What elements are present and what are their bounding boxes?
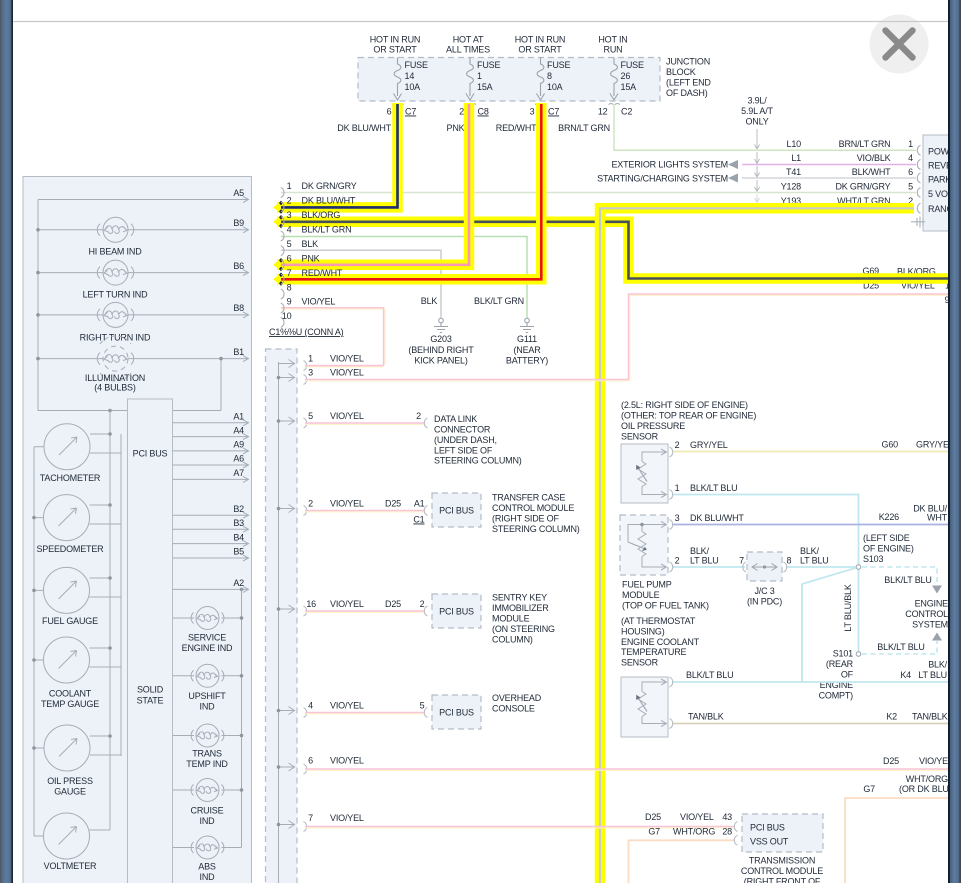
- svg-text:DK BLU/WHT: DK BLU/WHT: [302, 196, 356, 206]
- svg-text:(OR DK BLU): (OR DK BLU): [899, 784, 952, 794]
- svg-text:L10: L10: [787, 139, 802, 149]
- svg-text:HOT IN: HOT IN: [598, 35, 627, 45]
- svg-text:3: 3: [530, 107, 535, 117]
- svg-text:K4: K4: [900, 670, 911, 680]
- illumination bulbs (dashed): [97, 336, 133, 381]
- svg-text:STARTING/CHARGING SYSTEM: STARTING/CHARGING SYSTEM: [597, 174, 728, 184]
- svg-text:(UNDER DASH,: (UNDER DASH,: [434, 435, 497, 445]
- svg-text:2: 2: [675, 440, 680, 450]
- svg-text:6: 6: [308, 756, 313, 766]
- svg-text:SYSTEM: SYSTEM: [912, 619, 948, 629]
- svg-text:PNK: PNK: [302, 253, 320, 263]
- svg-text:UPSHIFT: UPSHIFT: [188, 691, 226, 701]
- svg-text:A1: A1: [414, 499, 425, 509]
- svg-text:BLK/LT GRN: BLK/LT GRN: [302, 225, 352, 235]
- fuse 14: [392, 58, 404, 105]
- svg-text:A5: A5: [233, 188, 244, 198]
- svg-text:BLK/LT BLU: BLK/LT BLU: [877, 642, 924, 652]
- svg-text:6: 6: [387, 107, 392, 117]
- svg-text:3.9L/: 3.9L/: [747, 96, 767, 106]
- svg-text:L1: L1: [791, 153, 801, 163]
- svg-text:HOT IN RUN: HOT IN RUN: [515, 35, 566, 45]
- svg-text:CRUISE: CRUISE: [191, 805, 224, 815]
- svg-text:(IN PDC): (IN PDC): [747, 597, 782, 607]
- svg-text:BRN/LT GRN: BRN/LT GRN: [558, 123, 610, 133]
- svg-text:TAN/BLK: TAN/BLK: [912, 712, 948, 722]
- svg-text:15A: 15A: [477, 82, 493, 92]
- svg-text:CONTROL: CONTROL: [905, 609, 948, 619]
- svg-text:8: 8: [787, 556, 792, 566]
- svg-text:43: 43: [722, 812, 732, 822]
- solid state / pci bus controller box: [128, 399, 173, 883]
- svg-text:J/C 3: J/C 3: [754, 586, 774, 596]
- svg-text:(LEFT SIDE: (LEFT SIDE: [863, 533, 910, 543]
- junction dots on left bus: [36, 228, 40, 232]
- svg-text:ENGINE: ENGINE: [915, 599, 949, 609]
- connector bus dots: [277, 376, 281, 827]
- svg-text:GAUGE: GAUGE: [54, 786, 86, 796]
- svg-text:G111: G111: [517, 334, 537, 344]
- svg-text:7: 7: [287, 268, 292, 278]
- svg-text:OR START: OR START: [518, 45, 562, 55]
- svg-text:COOLANT: COOLANT: [49, 688, 92, 698]
- svg-text:2: 2: [675, 556, 680, 566]
- svg-text:8: 8: [287, 283, 292, 293]
- svg-text:COMPT): COMPT): [819, 691, 854, 701]
- svg-text:4: 4: [287, 225, 292, 235]
- wire WHT/ORG right G7: [845, 798, 949, 883]
- svg-text:SENTRY KEY: SENTRY KEY: [492, 593, 547, 603]
- svg-text:(BEHIND RIGHT: (BEHIND RIGHT: [408, 345, 474, 355]
- wire TAN/BLK ect pin2 to K2: [672, 723, 949, 725]
- svg-text:VOLTMETER: VOLTMETER: [44, 861, 97, 871]
- svg-text:(TOP OF FUEL TANK): (TOP OF FUEL TANK): [622, 600, 709, 610]
- svg-text:VIO/YEL: VIO/YEL: [330, 354, 364, 364]
- cruise ind bulb: [173, 779, 242, 802]
- svg-text:PCI BUS: PCI BUS: [133, 449, 168, 459]
- grip handle icon: [911, 217, 925, 228]
- svg-text:6: 6: [908, 167, 913, 177]
- svg-text:OIL PRESS: OIL PRESS: [47, 776, 93, 786]
- connector bus vertical: [278, 362, 280, 883]
- svg-text:A7: A7: [233, 468, 244, 478]
- svg-text:2: 2: [416, 411, 421, 421]
- svg-text:LT BLU: LT BLU: [918, 670, 947, 680]
- svg-text:(RIGHT FRONT OF: (RIGHT FRONT OF: [744, 877, 821, 883]
- svg-text:OF DASH): OF DASH): [666, 88, 708, 98]
- highlight end diamonds: [273, 204, 278, 283]
- wire DK BLU/WHT fuel pump pin3 to K226: [672, 524, 949, 526]
- svg-text:B6: B6: [233, 261, 244, 271]
- svg-text:BLOCK: BLOCK: [666, 67, 696, 77]
- svg-text:WHT: WHT: [927, 513, 948, 523]
- svg-text:STATE: STATE: [137, 696, 164, 706]
- tachometer: [44, 424, 90, 470]
- svg-text:BLK/: BLK/: [690, 546, 709, 556]
- highlighted wire RED/WHT row7 to fuse8: [277, 103, 541, 279]
- svg-text:STEERING COLUMN): STEERING COLUMN): [492, 524, 580, 534]
- svg-text:A1: A1: [233, 412, 244, 422]
- oil press gauge: [44, 725, 90, 771]
- wire A2 row: [173, 588, 249, 590]
- svg-text:T41: T41: [786, 167, 801, 177]
- svg-text:ONLY: ONLY: [745, 117, 768, 127]
- svg-text:A4: A4: [233, 425, 244, 435]
- wire row4 BLK/LT GRN to G111: [281, 237, 527, 319]
- svg-text:CONTROL MODULE: CONTROL MODULE: [492, 503, 574, 513]
- svg-text:IMMOBILIZER: IMMOBILIZER: [492, 603, 549, 613]
- svg-text:14: 14: [405, 71, 415, 81]
- svg-text:BLK/ORG: BLK/ORG: [302, 210, 341, 220]
- svg-text:4: 4: [308, 701, 313, 711]
- svg-text:WHT/ORG: WHT/ORG: [906, 774, 948, 784]
- svg-text:DATA LINK: DATA LINK: [434, 414, 477, 424]
- left turn ind bulb: [97, 260, 133, 285]
- arrow line for A/T note: [755, 129, 760, 203]
- svg-text:4: 4: [908, 153, 913, 163]
- svg-text:VIO/YEL: VIO/YEL: [330, 701, 364, 711]
- svg-text:RUN: RUN: [604, 45, 623, 55]
- highlighted wire PNK row6 to fuse1: [277, 103, 469, 265]
- indicator bulb bus: [241, 589, 243, 847]
- wire BLK/LT BLU ect pin1 to K4 and S103: [672, 681, 949, 683]
- svg-text:DK GRN/GRY: DK GRN/GRY: [835, 181, 890, 191]
- wire BRN/LT GRN fuse26 to L10 row: [614, 104, 916, 150]
- tcm pci bus / vss out box: [742, 814, 823, 852]
- pci bus output rows B2-B5: [173, 515, 249, 558]
- svg-text:OF ENGINE): OF ENGINE): [863, 543, 914, 553]
- svg-text:BLK/LT BLU: BLK/LT BLU: [686, 670, 733, 680]
- svg-text:1: 1: [308, 354, 313, 364]
- svg-text:LT BLU: LT BLU: [800, 556, 829, 566]
- svg-text:LT BLU/BLK: LT BLU/BLK: [843, 584, 853, 632]
- svg-text:C7: C7: [548, 107, 559, 117]
- svg-text:Y128: Y128: [781, 181, 801, 191]
- svg-text:SENSOR: SENSOR: [621, 658, 659, 668]
- svg-text:7: 7: [308, 813, 313, 823]
- hi beam ind bulb: [97, 217, 133, 242]
- wire B1 drop to bus: [220, 359, 222, 411]
- svg-text:1: 1: [908, 139, 913, 149]
- svg-text:DK GRN/GRY: DK GRN/GRY: [302, 181, 357, 191]
- wire conn row4 VIO/YEL to overhead console: [305, 713, 424, 715]
- speedometer: [44, 495, 90, 541]
- svg-text:WHT/ORG: WHT/ORG: [673, 827, 715, 837]
- svg-text:2: 2: [308, 499, 313, 509]
- svg-text:RIGHT TURN IND: RIGHT TURN IND: [80, 333, 151, 343]
- svg-text:VSS OUT: VSS OUT: [750, 837, 789, 847]
- svg-text:CONTROL MODULE: CONTROL MODULE: [741, 866, 823, 876]
- svg-text:A6: A6: [233, 454, 244, 464]
- svg-text:5: 5: [908, 181, 913, 191]
- svg-text:2: 2: [459, 107, 464, 117]
- svg-text:(LEFT END: (LEFT END: [666, 78, 711, 88]
- wire B6 row: [38, 272, 248, 274]
- wire WHT/ORG vss out: [629, 840, 735, 883]
- module connector arcs: [917, 145, 920, 213]
- svg-text:B5: B5: [233, 547, 244, 557]
- voltmeter stubs: [34, 830, 110, 836]
- svg-text:OR START: OR START: [373, 45, 417, 55]
- wire conn row7 VIO/YEL to TCM: [305, 827, 734, 829]
- wire BLK/LT BLU fuel pump pin2 through J/C3: [672, 566, 857, 568]
- splice S103: [858, 569, 860, 652]
- svg-text:FUSE: FUSE: [405, 60, 428, 70]
- svg-text:TAN/BLK: TAN/BLK: [688, 712, 724, 722]
- svg-text:KICK PANEL): KICK PANEL): [414, 355, 468, 365]
- svg-text:A2: A2: [233, 578, 244, 588]
- svg-text:OVERHEAD: OVERHEAD: [492, 693, 542, 703]
- speedometer stubs: [34, 505, 121, 524]
- wire conn row5 VIO/YEL to DLC: [305, 423, 424, 425]
- wire row5 BLK to G203: [281, 250, 441, 318]
- svg-text:B9: B9: [233, 218, 244, 228]
- svg-text:K2: K2: [886, 712, 897, 722]
- fuse 26: [609, 58, 621, 105]
- svg-text:(2.5L: RIGHT SIDE OF ENGINE): (2.5L: RIGHT SIDE OF ENGINE): [621, 400, 748, 410]
- svg-text:PCI BUS: PCI BUS: [750, 823, 785, 833]
- svg-text:G60: G60: [882, 440, 899, 450]
- svg-text:IND: IND: [200, 872, 216, 882]
- coolant temp gauge: [44, 637, 90, 683]
- wire row9 VIO/YEL loop to conn row1: [281, 309, 385, 364]
- svg-text:GRY/YEL: GRY/YEL: [690, 440, 728, 450]
- dashed wire S101 to engine control system: [862, 641, 937, 654]
- svg-text:ABS: ABS: [198, 861, 216, 871]
- gauge bus vertical lines: [110, 411, 121, 831]
- svg-text:BRN/LT GRN: BRN/LT GRN: [839, 139, 891, 149]
- svg-text:CONSOLE: CONSOLE: [492, 704, 535, 714]
- svg-text:G7: G7: [863, 784, 875, 794]
- wire L1 VIO/BLK: [742, 164, 916, 166]
- svg-text:FUSE: FUSE: [621, 60, 644, 70]
- fuel pump module box: [620, 515, 668, 575]
- svg-text:(AT THERMOSTAT: (AT THERMOSTAT: [621, 616, 696, 626]
- svg-text:9: 9: [287, 297, 292, 307]
- svg-text:5: 5: [308, 411, 313, 421]
- svg-text:CONNECTOR: CONNECTOR: [434, 425, 491, 435]
- svg-text:BLK: BLK: [421, 296, 438, 306]
- cluster internal bus box: [38, 200, 221, 411]
- svg-text:BLK/: BLK/: [800, 546, 819, 556]
- connector row arrows: [279, 360, 295, 829]
- svg-text:SERVICE: SERVICE: [188, 632, 226, 642]
- svg-text:BLK/LT BLU: BLK/LT BLU: [690, 483, 737, 493]
- svg-text:STEERING COLUMN): STEERING COLUMN): [434, 456, 522, 466]
- svg-text:C2: C2: [621, 107, 632, 117]
- svg-text:VIO/YEL: VIO/YEL: [919, 756, 953, 766]
- svg-text:JUNCTION: JUNCTION: [666, 57, 710, 67]
- svg-text:BATTERY): BATTERY): [506, 355, 548, 365]
- svg-text:BLK/: BLK/: [928, 660, 947, 670]
- svg-text:8: 8: [547, 71, 552, 81]
- wire T41 BLK/WHT: [742, 177, 916, 179]
- service engine ind bulb: [173, 607, 242, 630]
- svg-text:VIO/BLK: VIO/BLK: [857, 153, 891, 163]
- svg-text:SENSOR: SENSOR: [621, 432, 659, 442]
- svg-text:OIL PRESSURE: OIL PRESSURE: [621, 421, 685, 431]
- svg-text:S103: S103: [863, 554, 883, 564]
- svg-text:(ON STEERING: (ON STEERING: [492, 624, 555, 634]
- svg-text:HOUSING): HOUSING): [621, 626, 665, 636]
- svg-text:B3: B3: [233, 518, 244, 528]
- wire B8 row: [38, 314, 248, 316]
- svg-text:(REAR: (REAR: [826, 659, 854, 669]
- wire BLK/LT BLU ops pin1 to S103: [672, 495, 859, 566]
- svg-text:C8: C8: [478, 107, 489, 117]
- svg-text:1: 1: [287, 181, 292, 191]
- svg-text:PNK: PNK: [447, 123, 465, 133]
- svg-text:S101: S101: [833, 649, 853, 659]
- voltmeter: [44, 813, 90, 859]
- svg-text:HOT IN RUN: HOT IN RUN: [370, 35, 421, 45]
- svg-text:D25: D25: [385, 499, 401, 509]
- svg-text:12: 12: [598, 107, 608, 117]
- svg-text:PCI BUS: PCI BUS: [439, 506, 474, 516]
- svg-text:DK BLU/WHT: DK BLU/WHT: [337, 123, 391, 133]
- junction block fuse box: [358, 58, 660, 102]
- svg-text:K226: K226: [879, 512, 899, 522]
- svg-text:FUEL PUMP: FUEL PUMP: [622, 580, 672, 590]
- svg-text:VIO/YEL: VIO/YEL: [330, 756, 364, 766]
- svg-text:DK BLU/WHT: DK BLU/WHT: [690, 513, 744, 523]
- svg-text:BLK/WHT: BLK/WHT: [852, 167, 891, 177]
- svg-text:TEMPERATURE: TEMPERATURE: [621, 647, 687, 657]
- svg-text:3: 3: [675, 513, 680, 523]
- svg-text:FUEL GAUGE: FUEL GAUGE: [42, 616, 98, 626]
- wire GRY/YEL to G60: [672, 451, 949, 453]
- svg-text:VIO/YEL: VIO/YEL: [680, 812, 714, 822]
- arrow exterior lights: [728, 160, 738, 169]
- svg-text:LEFT SIDE OF: LEFT SIDE OF: [434, 445, 493, 455]
- coolant stubs: [34, 648, 121, 667]
- svg-text:HI BEAM IND: HI BEAM IND: [88, 247, 142, 257]
- connector arcs: [304, 361, 307, 832]
- cluster harness connector (dashed): [266, 349, 298, 883]
- top divider line: [13, 21, 948, 23]
- highlighted wire WHT/LT GRN vertical: [600, 208, 914, 883]
- svg-text:FUSE: FUSE: [547, 60, 570, 70]
- svg-text:VIO/YEL: VIO/YEL: [330, 813, 364, 823]
- svg-text:(OTHER: TOP REAR OF ENGINE): (OTHER: TOP REAR OF ENGINE): [621, 410, 756, 420]
- svg-text:RED/WHT: RED/WHT: [302, 268, 343, 278]
- svg-text:15A: 15A: [621, 82, 637, 92]
- arrow starting/charging: [728, 174, 738, 183]
- oil press stubs: [34, 736, 121, 755]
- wire B9 row: [38, 229, 248, 231]
- svg-text:3: 3: [287, 210, 292, 220]
- svg-text:3: 3: [308, 368, 313, 378]
- svg-text:10: 10: [282, 311, 292, 321]
- wire conn row6 VIO/YEL to right: [305, 769, 949, 771]
- transfer case pci bus box: [432, 493, 481, 527]
- pci bus output rows A1-A7: [173, 423, 249, 480]
- fuse 8: [535, 58, 547, 105]
- svg-text:D25: D25: [883, 756, 899, 766]
- svg-text:G203: G203: [430, 334, 451, 344]
- svg-text:5: 5: [420, 701, 425, 711]
- svg-text:PCI BUS: PCI BUS: [439, 708, 474, 718]
- svg-text:MODULE: MODULE: [622, 590, 660, 600]
- arrows row ends: [243, 197, 249, 362]
- svg-text:IND: IND: [200, 701, 216, 711]
- wire row1 DK GRN/GRY to Y128: [281, 192, 916, 194]
- svg-text:10A: 10A: [547, 82, 563, 92]
- svg-text:D25: D25: [645, 812, 661, 822]
- svg-text:TEMP IND: TEMP IND: [186, 759, 228, 769]
- svg-text:IND: IND: [200, 816, 216, 826]
- svg-text:B8: B8: [233, 303, 244, 313]
- wire conn row3 VIO/YEL to D25: [305, 295, 949, 381]
- svg-text:5.9L A/T: 5.9L A/T: [741, 106, 773, 116]
- svg-text:5: 5: [287, 239, 292, 249]
- svg-text:SOLID: SOLID: [137, 685, 164, 695]
- wire conn row16 VIO/YEL to SKIM: [305, 611, 424, 613]
- svg-text:A9: A9: [233, 440, 244, 450]
- svg-text:26: 26: [621, 71, 631, 81]
- dashed wire S103 to engine control system: [862, 567, 937, 585]
- svg-text:B2: B2: [233, 504, 244, 514]
- svg-text:16: 16: [306, 599, 316, 609]
- highlighted wire DK BLU/WHT row2 to fuse14: [277, 103, 398, 207]
- svg-text:BLK/LT GRN: BLK/LT GRN: [474, 296, 524, 306]
- wire conn row2 VIO/YEL to TCCM: [305, 511, 424, 513]
- svg-text:VIO/YEL: VIO/YEL: [330, 368, 364, 378]
- svg-text:ILLUMINATION: ILLUMINATION: [85, 373, 145, 383]
- svg-text:B4: B4: [233, 532, 244, 542]
- splice S101: [856, 652, 861, 657]
- powertrain module box: [923, 135, 956, 231]
- svg-text:28: 28: [722, 827, 732, 837]
- svg-text:ENGINE IND: ENGINE IND: [182, 643, 233, 653]
- wire B1 row: [38, 358, 248, 360]
- abs ind bulb: [173, 836, 242, 859]
- svg-text:ENGINE COOLANT: ENGINE COOLANT: [621, 637, 700, 647]
- svg-text:LEFT TURN IND: LEFT TURN IND: [83, 290, 149, 300]
- ground G203: [434, 318, 448, 332]
- tachometer stubs: [34, 434, 121, 453]
- ground G111: [520, 318, 534, 332]
- svg-text:10A: 10A: [405, 82, 421, 92]
- close button: [870, 15, 929, 74]
- fuel gauge stubs: [34, 578, 121, 597]
- svg-text:C7: C7: [405, 107, 416, 117]
- svg-text:COLUMN): COLUMN): [492, 635, 533, 645]
- svg-text:MODULE: MODULE: [492, 614, 530, 624]
- svg-text:PCI BUS: PCI BUS: [439, 607, 474, 617]
- svg-text:LT BLU: LT BLU: [690, 556, 719, 566]
- svg-text:(RIGHT SIDE OF: (RIGHT SIDE OF: [492, 514, 559, 524]
- svg-text:VIO/YEL: VIO/YEL: [302, 297, 336, 307]
- svg-text:1: 1: [477, 71, 482, 81]
- svg-text:TEMP GAUGE: TEMP GAUGE: [41, 699, 99, 709]
- svg-text:HOT AT: HOT AT: [453, 35, 484, 45]
- svg-text:VIO/YEL: VIO/YEL: [330, 411, 364, 421]
- svg-text:TACHOMETER: TACHOMETER: [40, 473, 101, 483]
- svg-text:BLK/LT BLU: BLK/LT BLU: [884, 575, 931, 585]
- svg-text:1: 1: [675, 483, 680, 493]
- wire conn row1 VIO/YEL: [305, 366, 383, 368]
- instrument cluster box: [23, 177, 252, 883]
- svg-text:G7: G7: [648, 827, 660, 837]
- svg-text:C1: C1: [413, 515, 424, 525]
- svg-text:SPEEDOMETER: SPEEDOMETER: [36, 544, 104, 554]
- svg-text:2: 2: [287, 196, 292, 206]
- junction connector J/C 3: [747, 552, 782, 581]
- svg-text:(4 BULBS): (4 BULBS): [94, 382, 136, 392]
- svg-text:ALL TIMES: ALL TIMES: [446, 45, 490, 55]
- trans temp ind bulb: [173, 724, 242, 747]
